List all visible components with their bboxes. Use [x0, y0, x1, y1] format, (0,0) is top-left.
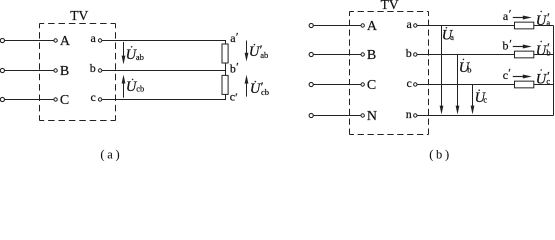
svg-text:(b): (b) — [429, 148, 452, 161]
wire — [314, 54, 361, 56]
label U_c — [475, 89, 488, 106]
label U_ab — [126, 46, 144, 63]
svg-text:TV: TV — [70, 8, 88, 23]
terminal A (a) — [54, 34, 71, 49]
terminal B (b) — [361, 48, 376, 63]
terminal c (a) — [90, 90, 101, 104]
arrow U'_cb (secondary) — [245, 75, 249, 97]
svg-text:b: b — [406, 46, 412, 60]
terminal b (a) — [90, 61, 102, 75]
svg-text:B: B — [60, 64, 69, 79]
svg-text:c: c — [406, 76, 411, 90]
resistor b' load — [515, 51, 534, 58]
wire c to c' — [102, 94, 226, 99]
svg-text:a: a — [90, 31, 96, 45]
wire b to b' — [102, 70, 226, 72]
source terminal phase-C (b) — [309, 82, 313, 86]
terminal C (b) — [361, 78, 376, 93]
svg-text:B: B — [367, 48, 376, 63]
label U_b — [459, 59, 472, 76]
terminal B (a) — [54, 64, 69, 79]
terminal a (a) — [90, 31, 101, 45]
resistor c' load — [515, 81, 534, 88]
svg-text:a: a — [450, 32, 454, 42]
resistor between b' and c' — [222, 75, 228, 94]
wire — [5, 99, 54, 101]
svg-text:b: b — [546, 47, 550, 57]
node label a' — [230, 29, 239, 45]
label U'_ab — [249, 42, 268, 60]
svg-text:cb: cb — [261, 87, 269, 97]
arrow U_ab (a to b) — [122, 42, 126, 65]
terminal N (b) — [361, 109, 377, 124]
svg-text:c: c — [90, 90, 95, 104]
label U_cb — [126, 79, 144, 95]
node label b' — [230, 59, 239, 75]
terminal C (a) — [54, 93, 69, 108]
svg-text:(a): (a) — [100, 148, 122, 161]
label U'_cb — [250, 79, 269, 97]
node label a' (b) — [503, 7, 512, 23]
svg-text:c: c — [546, 76, 550, 86]
terminal a (b) — [406, 17, 417, 31]
svg-text:′: ′ — [236, 29, 239, 43]
svg-text:b: b — [503, 39, 509, 53]
source terminal phase-C (a) — [0, 97, 4, 101]
svg-text:n: n — [406, 107, 412, 121]
terminal b (b) — [406, 46, 417, 60]
TV transformer box (b) — [350, 12, 429, 135]
terminal c (b) — [406, 76, 417, 90]
wire n bus — [417, 115, 554, 117]
wire b to b' — [417, 54, 515, 56]
resistor between a' and b' — [222, 44, 228, 63]
svg-text:A: A — [60, 34, 71, 49]
arrow U'_a — [513, 15, 532, 19]
svg-text:ab: ab — [136, 52, 144, 62]
wire a'-resistor to b junction — [225, 63, 227, 75]
source terminal phase-B (b) — [309, 52, 313, 56]
wire — [314, 25, 361, 27]
svg-text:C: C — [367, 78, 376, 93]
terminal n (b) — [406, 107, 417, 121]
TV transformer box (a) — [40, 24, 116, 121]
svg-text:′: ′ — [509, 7, 512, 21]
wire a' resistor to bus — [534, 25, 554, 27]
node label c' — [230, 89, 238, 104]
resistor a' load — [515, 22, 534, 29]
source terminal neutral (b) — [309, 113, 313, 117]
arrow U_c (c to n) — [471, 85, 475, 115]
svg-text:′: ′ — [236, 59, 239, 73]
arrow U_a (a to n) — [440, 26, 444, 115]
node label c' (b) — [503, 66, 512, 82]
svg-text:TV: TV — [381, 0, 399, 12]
svg-text:b: b — [230, 62, 236, 76]
svg-text:cb: cb — [136, 83, 144, 93]
svg-text:A: A — [367, 19, 378, 34]
wire — [314, 115, 361, 117]
svg-text:a: a — [546, 17, 550, 27]
wire a to a' — [102, 41, 226, 45]
wire c' resistor to bus — [534, 84, 554, 86]
source terminal phase-A (a) — [0, 38, 4, 42]
wire a to a' — [417, 25, 515, 27]
source terminal phase-A (b) — [309, 23, 313, 27]
arrow U_b (b to n) — [456, 55, 460, 115]
svg-text:ab: ab — [260, 50, 268, 60]
node label b' (b) — [503, 36, 513, 52]
wire b' resistor to bus — [534, 54, 554, 56]
svg-text:c: c — [483, 94, 487, 104]
arrow U_cb (c to b) — [122, 75, 126, 98]
label U'_a — [536, 10, 551, 29]
svg-text:N: N — [367, 109, 377, 124]
arrow U'_b — [513, 44, 532, 48]
svg-text:′: ′ — [508, 66, 511, 80]
right bus wire — [553, 26, 555, 116]
svg-text:′: ′ — [235, 90, 238, 104]
wire — [5, 70, 54, 72]
wire c to c' — [417, 84, 515, 86]
label U'_b — [536, 40, 551, 59]
label U_a — [442, 27, 454, 43]
wire — [5, 40, 54, 42]
arrow U'_ab (secondary) — [245, 41, 249, 62]
svg-text:C: C — [60, 93, 69, 108]
svg-text:a: a — [406, 17, 412, 31]
terminal A (b) — [361, 19, 378, 34]
arrow U'_c — [513, 74, 532, 78]
source terminal phase-B (a) — [0, 68, 4, 72]
svg-text:b: b — [90, 61, 96, 75]
svg-text:b: b — [467, 65, 471, 75]
wire — [314, 84, 361, 86]
svg-text:′: ′ — [509, 36, 512, 50]
label U'_c — [536, 69, 551, 88]
